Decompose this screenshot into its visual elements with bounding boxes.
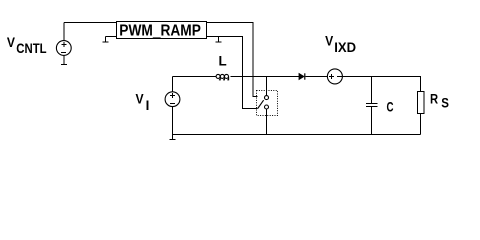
wire capacitor bottom lead bbox=[371, 107, 373, 135]
wire diode to V_IXD source bbox=[305, 76, 327, 78]
wire bottom rail bbox=[172, 134, 421, 136]
wire top rail V_I to inductor bbox=[173, 76, 217, 78]
switch S1 dashed box bbox=[257, 91, 278, 116]
switch top contact bbox=[265, 96, 269, 100]
svg-text:CNTL: CNTL bbox=[16, 41, 46, 56]
switch bottom contact bbox=[265, 105, 269, 109]
svg-text:IXD: IXD bbox=[334, 40, 356, 55]
label V_IXD bbox=[325, 33, 356, 55]
inductor L bbox=[216, 74, 229, 79]
voltage source V_IXD bbox=[327, 69, 342, 84]
wire V_CNTL to PWM_RAMP input bbox=[64, 22, 117, 24]
ground terminal below V_I at bottom rail bbox=[170, 135, 176, 140]
ground terminal below V_CNTL bbox=[61, 55, 67, 64]
resistor R_S bbox=[418, 92, 425, 114]
svg-text:PWM_RAMP: PWM_RAMP bbox=[119, 23, 201, 40]
capacitor C bbox=[366, 104, 378, 107]
wire PWM_RAMP bottom output to switch control (vertical B) bbox=[207, 37, 258, 109]
wire V_IXD to R_S corner bbox=[342, 77, 420, 92]
wire switch bottom lead to bottom rail bbox=[266, 109, 268, 135]
svg-text:S: S bbox=[441, 96, 449, 111]
wire V_CNTL top lead bbox=[63, 23, 65, 41]
wire V_I top lead to rail bbox=[172, 77, 174, 92]
switch blade bbox=[258, 100, 264, 108]
voltage source V_CNTL bbox=[56, 41, 71, 56]
svg-text:L: L bbox=[219, 54, 227, 69]
wire switch top lead from rail bbox=[266, 77, 268, 96]
svg-text:I: I bbox=[146, 98, 150, 113]
svg-text:V: V bbox=[325, 33, 333, 48]
voltage source V_I bbox=[165, 92, 180, 107]
diode D1 bbox=[299, 73, 306, 79]
wire PWM_RAMP lower-left pin bbox=[106, 36, 117, 38]
svg-text:C: C bbox=[387, 99, 394, 114]
ground terminal on PWM_RAMP bottom output wire bbox=[216, 37, 222, 43]
wire PWM_RAMP top output to switch control (vertical A) bbox=[207, 23, 258, 97]
wire V_I bottom lead to bottom rail bbox=[172, 107, 174, 135]
svg-text:V: V bbox=[7, 35, 15, 50]
label V_CNTL bbox=[7, 35, 47, 56]
wire capacitor top lead bbox=[371, 77, 373, 104]
op-amp macro box PWM_RAMP U1 bbox=[117, 22, 207, 39]
svg-text:R: R bbox=[430, 92, 438, 107]
wire R_S bottom lead bbox=[420, 114, 422, 135]
svg-text:V: V bbox=[136, 91, 144, 106]
ground terminal at PWM_RAMP lower-left pin bbox=[103, 37, 109, 43]
label R_S bbox=[430, 92, 449, 111]
wire top rail inductor to diode bbox=[231, 76, 299, 78]
label V_I bbox=[136, 91, 150, 113]
